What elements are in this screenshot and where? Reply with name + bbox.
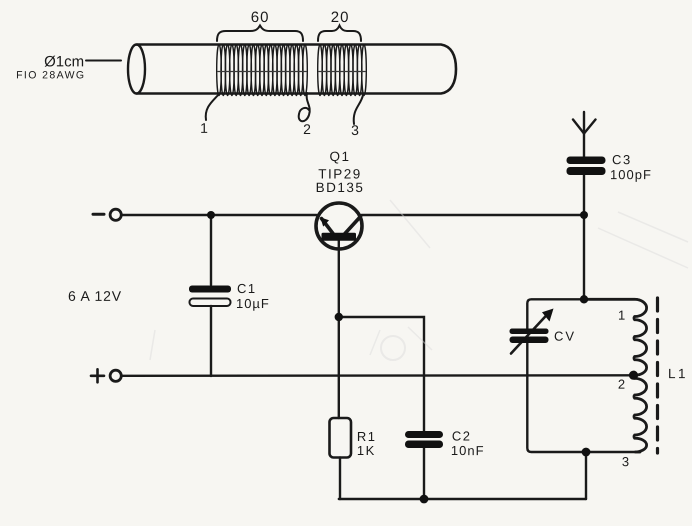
CV arrowhead xyxy=(542,309,554,322)
svg-text:CV: CV xyxy=(554,329,576,344)
svg-text:2: 2 xyxy=(618,377,626,392)
svg-text:20: 20 xyxy=(331,9,350,26)
faint scan ghost marks xyxy=(150,200,688,360)
svg-text:10nF: 10nF xyxy=(451,443,485,458)
wire rail to tank top xyxy=(583,215,585,299)
svg-text:1: 1 xyxy=(618,308,626,323)
antenna mast xyxy=(583,112,585,157)
tap lead 1 xyxy=(206,94,219,120)
bottom ground wire xyxy=(339,498,586,500)
antenna right arm xyxy=(584,120,596,134)
coil form left end cap xyxy=(128,45,145,94)
dimension brace 60 xyxy=(217,26,303,42)
tap lead 2 (pigtail loop) xyxy=(299,93,310,121)
wire C3 to rail xyxy=(583,175,585,216)
wire base junction to C2 xyxy=(339,317,424,431)
coil form rod body xyxy=(137,45,456,94)
capacitor C2 plate 2 xyxy=(405,441,443,449)
junction dot tank bottom xyxy=(582,448,591,457)
svg-text:L1: L1 xyxy=(668,366,688,381)
top rail right segment xyxy=(362,214,585,216)
svg-text:C2: C2 xyxy=(452,429,472,444)
capacitor C1 negative plate xyxy=(190,299,231,307)
capacitor C1 positive plate xyxy=(189,286,231,293)
transistor Q1 circle xyxy=(316,203,362,249)
wire C2 bottom lead xyxy=(423,448,425,499)
junction dot base node xyxy=(335,313,343,321)
svg-text:6 A 12V: 6 A 12V xyxy=(68,288,122,304)
winding section 2 midline xyxy=(319,71,365,73)
svg-text:100pF: 100pF xyxy=(610,167,652,182)
winding section 1 midline xyxy=(218,71,306,73)
resistor R1 body xyxy=(330,418,352,458)
transistor Q1 emitter arrowhead xyxy=(320,217,329,226)
svg-text:C3: C3 xyxy=(612,152,632,167)
leader line for diameter label xyxy=(86,60,121,62)
antenna left arm xyxy=(573,120,584,134)
junction dot tank top xyxy=(580,295,588,303)
winding section 2 (20 turns) xyxy=(318,45,367,96)
junction dot bottom wire C2 xyxy=(420,495,429,504)
wire R1 top lead xyxy=(338,317,340,418)
wire C1 top lead xyxy=(210,215,212,285)
tank left lower wire with corner xyxy=(527,343,640,452)
plus terminal xyxy=(110,370,121,381)
svg-text:R1: R1 xyxy=(357,429,377,444)
dimension brace 20 xyxy=(318,26,361,42)
winding section 1 (60 turns) xyxy=(217,45,308,96)
svg-text:Ø1cm: Ø1cm xyxy=(44,53,84,70)
svg-text:3: 3 xyxy=(351,122,360,138)
wire C1 bottom lead xyxy=(210,306,212,376)
inductor L1 winding xyxy=(586,299,647,452)
minus terminal xyxy=(110,209,121,220)
wire R1 bottom lead xyxy=(339,458,341,500)
transistor Q1 base lead xyxy=(338,240,340,317)
svg-text:1K: 1K xyxy=(357,443,376,458)
svg-text:Q1: Q1 xyxy=(330,149,351,164)
capacitor CV plate 1 xyxy=(510,329,549,335)
svg-text:FIO 28AWG: FIO 28AWG xyxy=(16,69,85,81)
top rail left segment xyxy=(122,214,317,216)
inductor core dashed line xyxy=(656,298,659,453)
tank top wire with corner xyxy=(527,299,637,329)
capacitor C3 plate 1 xyxy=(567,157,606,165)
svg-text:60: 60 xyxy=(251,9,270,26)
transistor Q1 emitter xyxy=(322,219,334,234)
minus sign xyxy=(93,213,104,216)
svg-text:C1: C1 xyxy=(237,281,257,296)
svg-text:BD135: BD135 xyxy=(316,180,365,195)
CV arrow shaft xyxy=(511,313,549,354)
junction dot L1 tap 2 xyxy=(629,371,638,380)
plus sign xyxy=(91,369,104,382)
svg-text:10µF: 10µF xyxy=(236,296,270,311)
tap lead 3 xyxy=(354,95,363,124)
capacitor CV plate 2 xyxy=(510,337,549,344)
svg-text:3: 3 xyxy=(622,454,630,469)
junction dot antenna rail xyxy=(580,211,588,219)
capacitor C2 plate 1 xyxy=(405,431,443,438)
transistor Q1 base bar xyxy=(322,233,357,241)
capacitor C3 plate 2 xyxy=(567,167,606,175)
bottom rail xyxy=(122,374,634,377)
svg-text:1: 1 xyxy=(200,120,209,136)
svg-text:2: 2 xyxy=(303,121,312,137)
junction dot C1 top rail xyxy=(207,211,215,219)
wire tank bottom riser xyxy=(585,452,587,499)
transistor Q1 collector xyxy=(345,217,361,234)
